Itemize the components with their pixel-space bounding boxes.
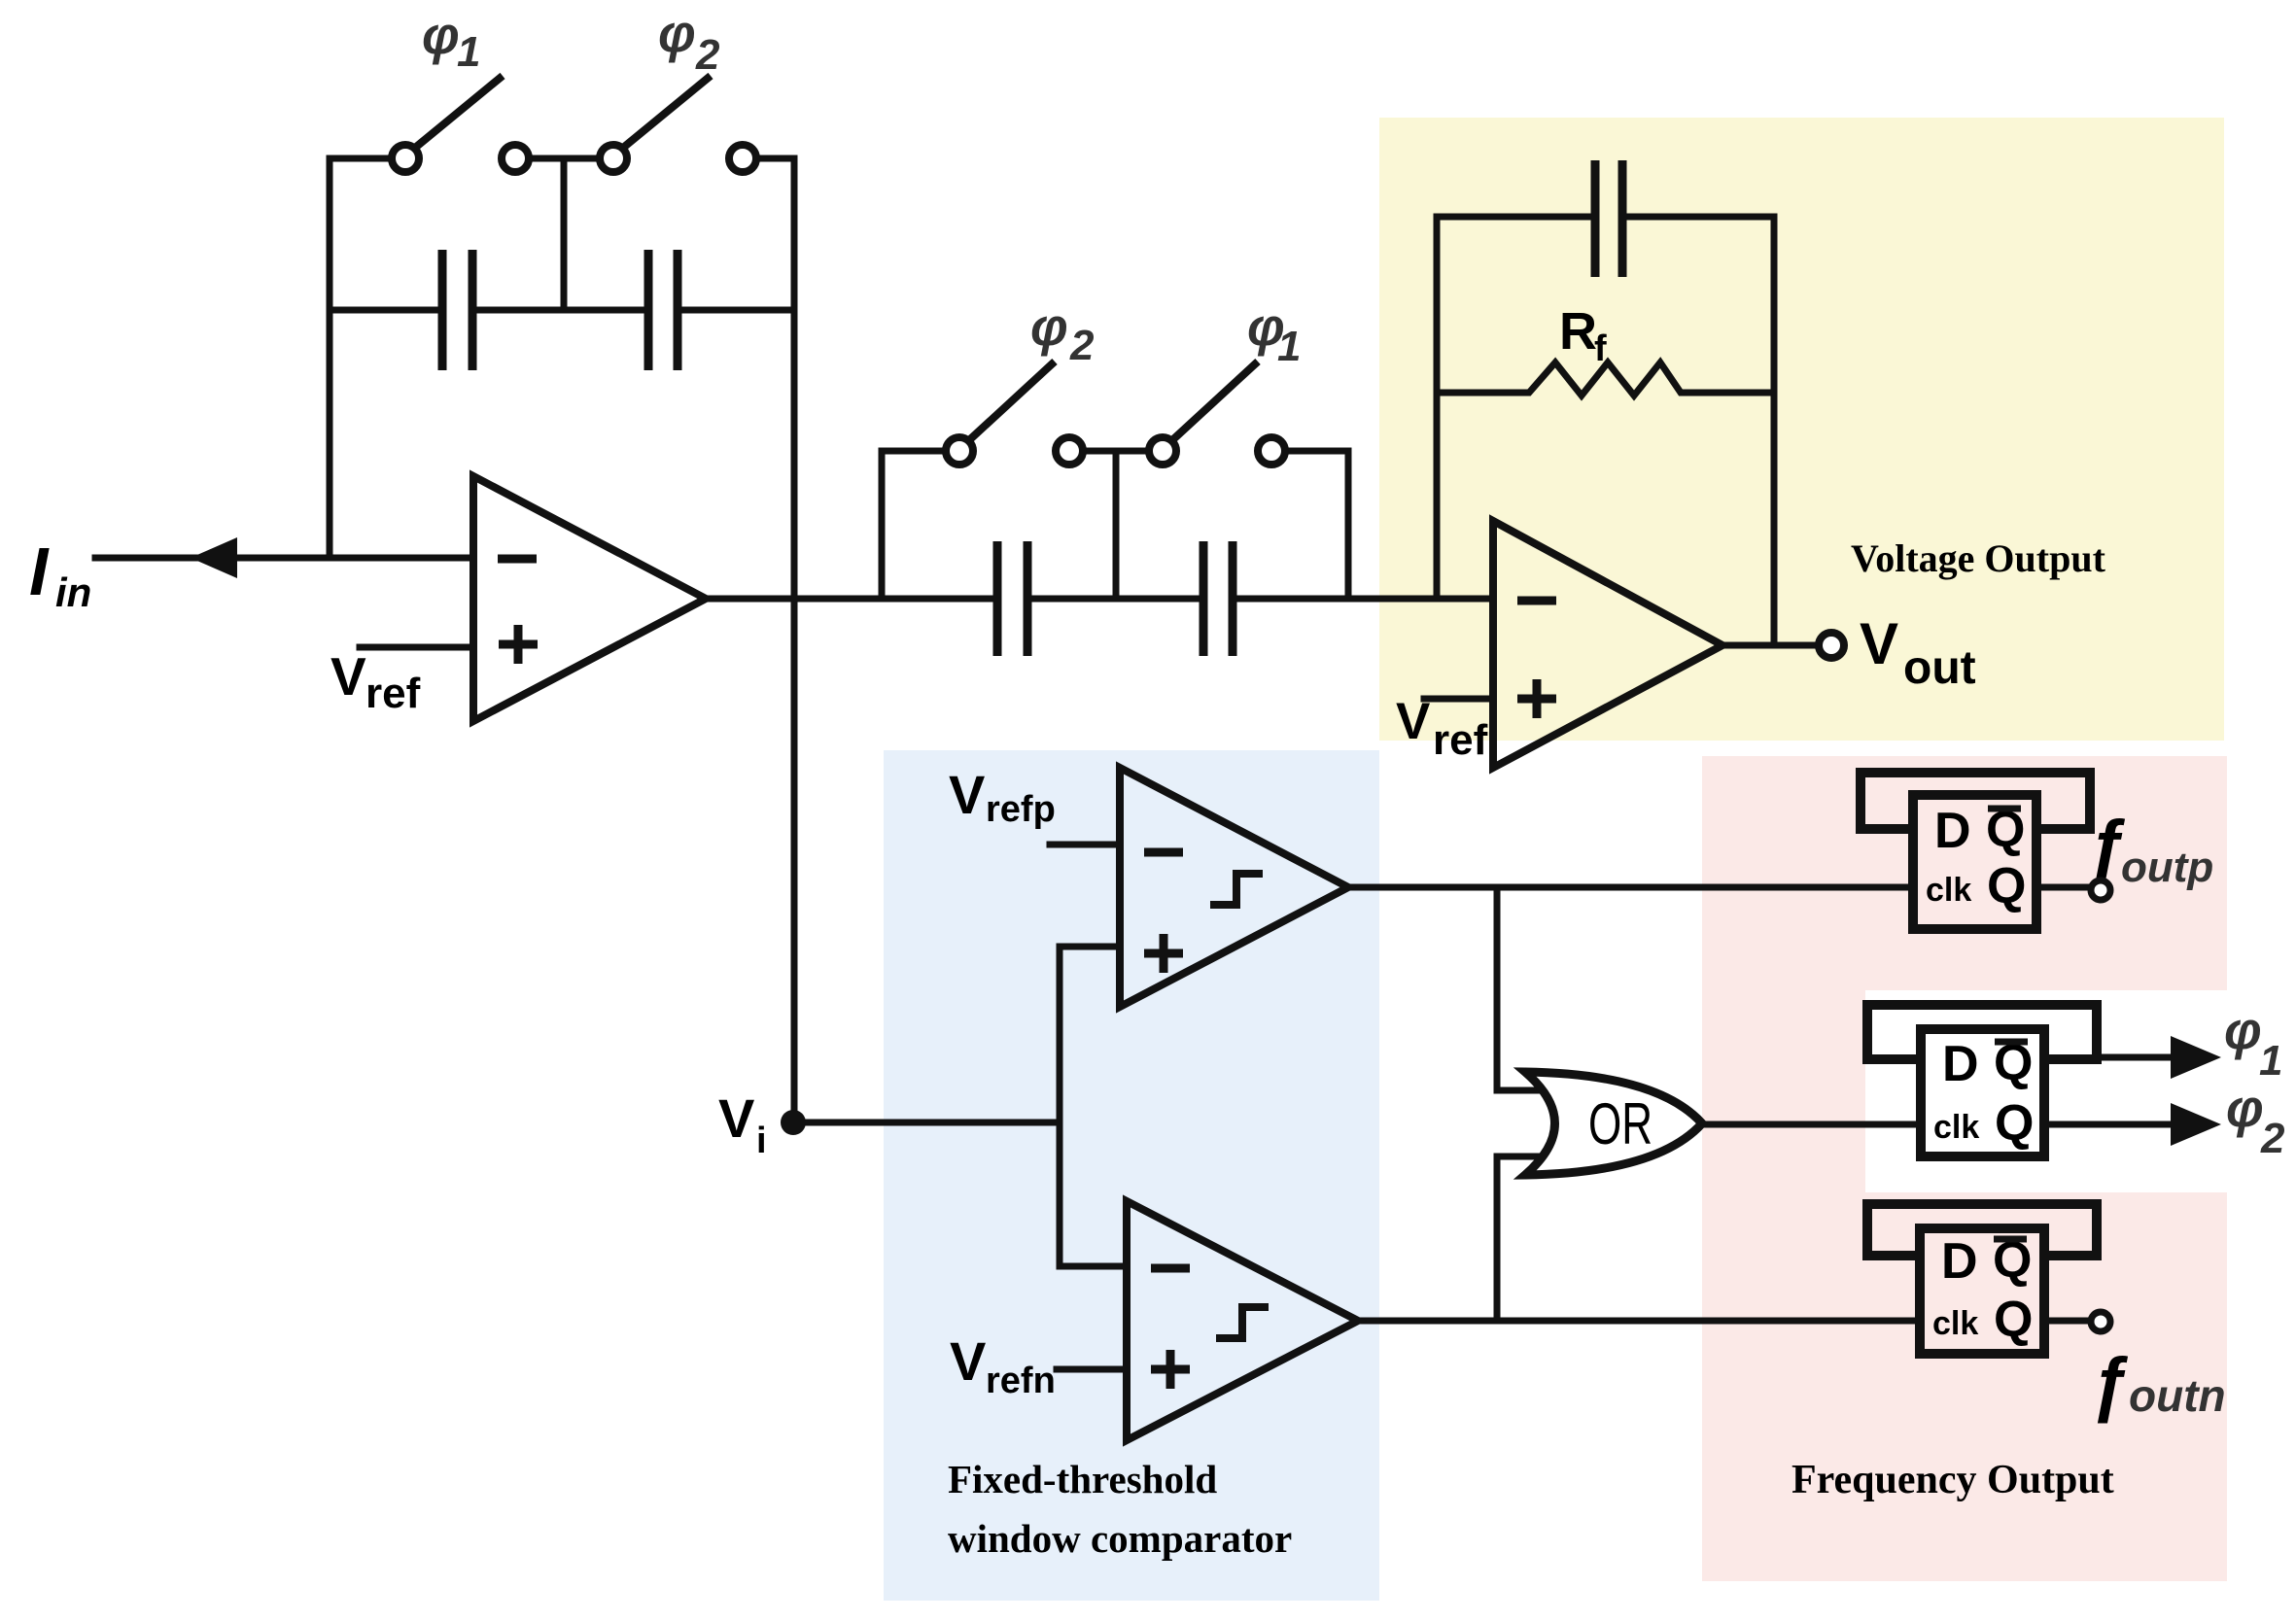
arrowhead phi2	[2171, 1103, 2221, 1146]
wire: comp1 output to FF1 clk	[1348, 884, 1913, 891]
svg-text:OR: OR	[1588, 1091, 1652, 1156]
svg-text:V: V	[950, 1330, 986, 1392]
flip-flop FF3 pin labels	[1932, 1232, 2033, 1348]
svg-text:clk: clk	[1932, 1305, 1978, 1342]
OR gate U3	[1525, 1072, 1702, 1175]
wire: OR lower input branch	[1497, 1156, 1559, 1321]
svg-text:D: D	[1941, 1233, 1978, 1290]
wire: block1 right vertical down to Vi	[791, 158, 798, 1122]
flip-flop FF3	[1867, 1204, 2097, 1354]
svg-text:Voltage Output: Voltage Output	[1851, 536, 2106, 580]
svg-text:V: V	[949, 764, 985, 825]
svg-text:window comparator: window comparator	[948, 1516, 1292, 1561]
svg-text:2: 2	[1069, 322, 1095, 369]
op-amp U2	[1493, 521, 1722, 768]
wire: block1 mid vertical	[561, 158, 568, 310]
wire: FF1 Q output stub	[2036, 884, 2088, 891]
svg-text:in: in	[55, 569, 91, 615]
svg-text:refp: refp	[986, 789, 1056, 830]
terminal Vout circle	[1819, 633, 1844, 658]
svg-text:V: V	[330, 646, 366, 707]
wire: op-amp2 left feedback vertical	[1434, 217, 1441, 596]
capacitor C4 block2 plates	[1203, 541, 1233, 656]
voltage output region (yellow)	[1379, 118, 2224, 741]
svg-text:D: D	[1942, 1036, 1979, 1092]
wire: phi2 output arrow line	[2044, 1121, 2177, 1128]
wire: block2 switch rail segments	[882, 448, 1348, 455]
wire: FF3 Q output stub	[2044, 1318, 2088, 1325]
flip-flop FF2	[1867, 1005, 2097, 1156]
FF1 Qbar overline	[1988, 806, 2021, 812]
svg-text:φ: φ	[422, 5, 460, 65]
svg-text:φ: φ	[2224, 1000, 2262, 1060]
comparator A2 (lower)	[1127, 1201, 1358, 1440]
wire: Iin input line	[95, 555, 473, 562]
flip-flop FF1 pin labels	[1926, 802, 2026, 914]
capacitor Cf feedback plates	[1595, 160, 1622, 277]
wire: block2 right bracket	[1345, 451, 1352, 599]
wire: Vrefp stub	[1050, 842, 1120, 848]
svg-text:outp: outp	[2121, 844, 2213, 891]
capacitor C3 block2 plates	[997, 541, 1027, 656]
comparator A1 (upper)	[1120, 768, 1348, 1007]
svg-text:clk: clk	[1933, 1109, 1979, 1146]
FF2 Qbar overline	[1995, 1039, 2028, 1046]
window comparator region (blue)	[884, 750, 1379, 1601]
op-amp U1	[473, 476, 706, 721]
wire: Vi horizontal to comparator rail	[793, 1120, 1060, 1126]
switch S3 phi2 block2	[946, 362, 1055, 465]
svg-text:ref: ref	[365, 670, 421, 717]
svg-text:I: I	[29, 534, 50, 609]
wire: comp2 output to FF3 clk	[1358, 1318, 1920, 1325]
svg-text:Frequency Output: Frequency Output	[1792, 1458, 2114, 1502]
frequency output region (pink)	[1702, 756, 2227, 1581]
wire: block1 left vertical	[327, 158, 333, 558]
wire: phi1 output arrow line	[2097, 1054, 2177, 1061]
switch circle block1 d	[729, 145, 756, 172]
svg-text:out: out	[1903, 642, 1976, 694]
svg-text:φ: φ	[2226, 1078, 2264, 1138]
svg-text:φ: φ	[658, 3, 696, 63]
wire: block1 cap rail	[330, 307, 794, 314]
svg-text:1: 1	[1277, 323, 1301, 370]
wire: op-amp1 output line with series caps	[706, 596, 1493, 603]
wire: feedback cap top rail op-amp2	[1437, 214, 1774, 221]
terminal foutn circle	[2091, 1312, 2110, 1331]
switch circle block2 d	[1258, 437, 1285, 465]
switch S2 phi2 block1	[600, 76, 711, 172]
svg-text:Q: Q	[1994, 1292, 2033, 1348]
svg-text:2: 2	[695, 31, 720, 79]
wire: Vrefn stub	[1057, 1366, 1127, 1373]
svg-text:1: 1	[457, 28, 480, 76]
wire: OR output to FF2 clk	[1702, 1121, 1921, 1128]
wire: op-amp2 right feedback vertical	[1771, 217, 1778, 645]
switch circle block1 b	[502, 145, 529, 172]
flip-flop FF1	[1861, 773, 2090, 929]
svg-text:Q: Q	[1987, 858, 2026, 914]
svg-text:refn: refn	[986, 1361, 1056, 1401]
svg-text:ref: ref	[1433, 716, 1488, 764]
capacitor C1 block1 plates	[442, 250, 472, 370]
arrowhead Iin	[191, 537, 237, 578]
svg-text:f: f	[1594, 328, 1607, 369]
FF3 Qbar overline	[1994, 1236, 2027, 1243]
svg-text:i: i	[756, 1121, 767, 1161]
switch S1 phi1 block1	[392, 76, 503, 172]
node Vi junction dot	[781, 1110, 806, 1135]
switch circle block2 b	[1056, 437, 1083, 465]
wire: op-amp2 output to Vout terminal	[1722, 642, 1816, 649]
wire: comparator input rail down to comp2 minus	[1060, 1122, 1127, 1266]
capacitor C2 block1 plates	[648, 250, 678, 370]
wire: block1 switch rail segments	[330, 155, 794, 162]
svg-text:V: V	[1860, 611, 1898, 676]
svg-text:Q: Q	[1995, 1095, 2034, 1152]
svg-text:2: 2	[2260, 1115, 2285, 1162]
svg-text:Fixed-threshold: Fixed-threshold	[948, 1457, 1217, 1501]
svg-text:R: R	[1559, 302, 1597, 361]
wire: block2 mid vertical	[1113, 451, 1120, 599]
terminal foutp circle	[2091, 880, 2110, 900]
svg-text:clk: clk	[1926, 872, 1971, 909]
svg-text:D: D	[1934, 803, 1971, 859]
svg-text:V: V	[1396, 693, 1430, 750]
svg-text:V: V	[718, 1087, 754, 1149]
arrowhead phi1	[2171, 1036, 2221, 1079]
resistor Rf	[1437, 362, 1774, 396]
svg-text:outn: outn	[2129, 1370, 2226, 1421]
wire: Vref stub op-amp2	[1424, 696, 1493, 703]
wire: Vref stub op-amp1	[360, 644, 473, 651]
svg-text:φ: φ	[1030, 296, 1068, 357]
svg-text:ƒ: ƒ	[2090, 1343, 2130, 1424]
white notch over pink	[1865, 990, 2227, 1192]
switch S4 phi1 block2	[1149, 362, 1258, 465]
wire: block2 left bracket	[879, 451, 886, 599]
wire: comparator input rail up to comp1 plus	[1060, 947, 1120, 1122]
wire: OR upper input branch	[1497, 887, 1559, 1090]
flip-flop FF2 pin labels	[1933, 1035, 2034, 1152]
